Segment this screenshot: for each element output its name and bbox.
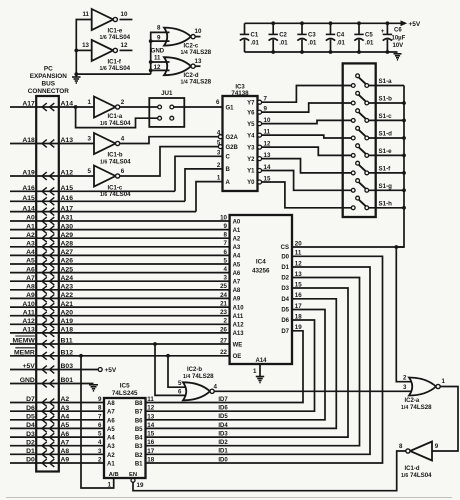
svg-text:A17: A17	[22, 101, 35, 108]
svg-text:C3: C3	[308, 33, 316, 39]
svg-text:B: B	[226, 167, 231, 173]
svg-text:A18: A18	[22, 137, 35, 144]
svg-text:MEMW: MEMW	[13, 338, 36, 345]
wire IC4 A14 pin 1 to ground	[253, 364, 260, 376]
connector row D5 / pin A4 wire	[10, 414, 104, 424]
node ID6 label	[218, 406, 228, 412]
svg-text:4: 4	[224, 266, 228, 273]
svg-text:A3: A3	[233, 245, 241, 251]
svg-text:A5: A5	[26, 258, 35, 265]
svg-text:A6: A6	[61, 431, 70, 438]
svg-text:19: 19	[137, 482, 144, 489]
capacitor C5 .01	[354, 21, 374, 54]
svg-text:D4: D4	[26, 422, 35, 429]
svg-text:S1-d: S1-d	[379, 131, 393, 138]
connector row GND / pin B01 wire	[10, 377, 94, 387]
svg-text:A15: A15	[61, 185, 74, 192]
wire IC1-e/IC1-f input tie to ground	[74, 20, 150, 77]
svg-text:ID6: ID6	[218, 406, 228, 412]
svg-text:MEMR: MEMR	[14, 350, 35, 357]
connector row A0 / pin A31 wire	[10, 215, 230, 225]
svg-text:B8: B8	[135, 401, 143, 407]
svg-text:2: 2	[224, 318, 228, 325]
svg-text:D7: D7	[281, 329, 289, 335]
svg-text:A14: A14	[61, 101, 74, 108]
svg-text:1: 1	[217, 175, 221, 182]
svg-text:A12: A12	[61, 170, 74, 177]
svg-text:9: 9	[98, 396, 102, 403]
connector row +5V / pin B03 wire	[10, 363, 98, 373]
svg-text:A1: A1	[26, 223, 35, 230]
connector row A1 / pin A30 wire	[10, 223, 230, 233]
svg-text:A4: A4	[107, 436, 115, 442]
switch S1-a	[351, 74, 404, 88]
svg-text:74138: 74138	[231, 90, 249, 97]
node ID0 label	[218, 457, 228, 463]
connector row MEMR / pin B12 wire	[10, 348, 230, 360]
svg-text:17: 17	[147, 448, 154, 455]
svg-text:A/B: A/B	[109, 472, 119, 478]
svg-text:9: 9	[435, 443, 439, 450]
wire IC2-a output to IC1-d input	[432, 387, 458, 452]
svg-text:A4: A4	[26, 249, 35, 256]
wire IC1-b output to IC3 G2A	[120, 137, 218, 144]
svg-text:5: 5	[88, 168, 92, 175]
connector row A2 / pin A29 wire	[10, 232, 230, 242]
svg-text:1/4 74LS28: 1/4 74LS28	[181, 49, 212, 56]
svg-text:26: 26	[220, 326, 227, 333]
svg-text:A13: A13	[233, 331, 245, 337]
svg-text:6: 6	[224, 249, 228, 256]
wire IC3 Y4 to switch S1-d	[262, 135, 352, 138]
PC expansion bus connector body (rectangle outline)	[36, 96, 59, 472]
svg-text:1: 1	[442, 378, 446, 385]
svg-text:GND: GND	[151, 49, 165, 55]
svg-text:A3: A3	[26, 241, 35, 248]
svg-text:C4: C4	[337, 33, 345, 39]
svg-text:B1: B1	[135, 462, 143, 468]
svg-text:D6: D6	[26, 405, 35, 412]
nor gate IC2-a	[401, 374, 446, 411]
wire IC4 D1 to IC5 (ID bus)	[146, 267, 371, 454]
wire IC1-d output to IC5 EN pin 19	[131, 451, 406, 491]
svg-text:.01: .01	[337, 41, 346, 47]
svg-text:ID3: ID3	[218, 432, 228, 438]
svg-text:6: 6	[216, 99, 220, 106]
switch S1-e	[351, 144, 404, 158]
svg-text:S1-e: S1-e	[379, 148, 393, 155]
svg-text:1: 1	[88, 99, 92, 106]
svg-text:3: 3	[403, 384, 407, 391]
svg-text:A21: A21	[61, 301, 74, 308]
svg-text:A18: A18	[61, 327, 74, 334]
svg-text:D2: D2	[281, 276, 289, 282]
svg-text:A12: A12	[22, 318, 35, 325]
svg-text:A2: A2	[61, 396, 70, 403]
svg-text:A24: A24	[61, 275, 74, 282]
connector row D6 / pin A3 wire	[10, 405, 104, 415]
svg-text:Y6: Y6	[247, 110, 255, 116]
inverter IC1-c	[88, 166, 132, 199]
svg-text:27: 27	[220, 337, 227, 344]
svg-text:D5: D5	[26, 414, 35, 421]
svg-text:1/6 74LS04: 1/6 74LS04	[401, 472, 432, 479]
svg-text:A3: A3	[107, 444, 115, 450]
svg-text:OE: OE	[233, 354, 242, 360]
ground (IC4 A14)	[256, 377, 264, 383]
svg-text:A9: A9	[61, 457, 70, 464]
wire IC3 Y6 to switch S1-b	[262, 103, 352, 112]
svg-text:D4: D4	[281, 297, 289, 303]
svg-text:CS: CS	[281, 245, 289, 251]
connector row A14 / pin A17 wire	[10, 205, 196, 215]
svg-text:11: 11	[82, 11, 89, 18]
svg-text:Y4: Y4	[247, 133, 255, 139]
ground (connector B01)	[89, 385, 98, 391]
svg-text:5: 5	[178, 380, 182, 387]
svg-text:A23: A23	[61, 284, 74, 291]
svg-text:A29: A29	[61, 232, 74, 239]
svg-text:S1-c: S1-c	[379, 113, 393, 120]
PC expansion bus connector header label	[28, 66, 69, 96]
svg-text:C: C	[226, 155, 231, 161]
svg-text:7: 7	[98, 413, 102, 420]
svg-text:74LS245: 74LS245	[112, 390, 138, 397]
connector row A12 / pin A19 wire	[10, 318, 230, 328]
svg-text:A17: A17	[61, 205, 74, 212]
svg-text:A19: A19	[61, 318, 74, 325]
inverter IC1-e	[82, 9, 132, 41]
svg-text:2: 2	[217, 162, 221, 169]
svg-text:8: 8	[399, 443, 403, 450]
inverter IC1-b	[88, 133, 132, 165]
node ID2 label	[218, 440, 228, 446]
svg-text:1/4 74LS28: 1/4 74LS28	[401, 404, 432, 411]
svg-text:GND: GND	[20, 377, 35, 384]
svg-text:A4: A4	[233, 254, 241, 260]
svg-text:D7: D7	[26, 396, 35, 403]
svg-text:Y2: Y2	[247, 157, 255, 163]
svg-text:EXPANSION: EXPANSION	[30, 73, 68, 80]
svg-text:EN: EN	[129, 472, 137, 478]
ground rail (bottom of caps)	[245, 51, 398, 53]
connector row D4 / pin A5 wire	[10, 422, 104, 432]
wire IC3 Y1 to switch S1-g	[262, 171, 352, 191]
svg-text:A7: A7	[233, 280, 241, 286]
svg-text:5: 5	[224, 257, 228, 264]
svg-text:A27: A27	[61, 249, 74, 256]
connector row D0 / pin A9 wire	[10, 457, 104, 467]
svg-text:1: 1	[108, 482, 112, 489]
svg-text:ID5: ID5	[218, 414, 228, 420]
svg-text:A5: A5	[233, 262, 241, 268]
svg-text:A14: A14	[255, 358, 267, 364]
svg-text:25: 25	[220, 283, 227, 290]
svg-text:.01: .01	[251, 41, 260, 47]
svg-text:A8: A8	[61, 448, 70, 455]
switch block S1 outline	[343, 63, 376, 217]
wire IC4 CS to switch bus	[292, 245, 404, 249]
svg-text:10V: 10V	[393, 43, 404, 49]
wire IC2-b output to IC2-a pin 3	[214, 390, 414, 392]
switch S1-f	[351, 161, 404, 175]
nor gate IC2-d	[154, 55, 212, 86]
svg-text:D5: D5	[281, 308, 289, 314]
svg-text:23: 23	[220, 309, 227, 316]
wire IC3 Y5 to switch S1-c	[262, 120, 352, 123]
svg-text:A7: A7	[107, 410, 115, 416]
wire IC4 D0 to IC5 (ID bus)	[146, 256, 383, 463]
svg-text:A19: A19	[22, 170, 35, 177]
svg-text:3: 3	[217, 149, 221, 156]
ground (IC1-e/f inputs)	[72, 74, 81, 83]
node GND label	[151, 49, 165, 55]
svg-text:2: 2	[98, 457, 102, 464]
svg-text:A8: A8	[107, 401, 115, 407]
wire JU1 to IC3 G1 pin 6	[174, 99, 223, 107]
inverter IC1-f	[82, 40, 132, 72]
svg-text:B01: B01	[61, 377, 74, 384]
svg-text:A6: A6	[26, 266, 35, 273]
svg-text:10: 10	[220, 214, 227, 221]
svg-text:A20: A20	[61, 309, 74, 316]
svg-text:13: 13	[82, 42, 89, 49]
svg-text:13: 13	[147, 413, 154, 420]
node ID7 label	[218, 397, 228, 403]
wire IC4 D2 to IC5 (ID bus)	[146, 278, 360, 446]
switch S1-d	[351, 126, 404, 140]
svg-text:A1: A1	[233, 228, 241, 234]
capacitor C2 .01	[269, 21, 289, 54]
svg-text:8: 8	[157, 25, 161, 32]
svg-text:JU1: JU1	[161, 90, 173, 97]
capacitor C1 .01	[240, 23, 260, 52]
svg-text:24: 24	[220, 292, 227, 299]
wire IC2-c/IC2-d grounded inputs	[149, 32, 170, 74]
svg-text:A13: A13	[22, 327, 35, 334]
svg-text:S1-f: S1-f	[379, 166, 392, 173]
svg-text:B6: B6	[135, 418, 143, 424]
svg-text:Y7: Y7	[247, 100, 255, 106]
svg-text:4: 4	[98, 439, 102, 446]
svg-text:A25: A25	[61, 266, 74, 273]
svg-text:C6: C6	[394, 28, 402, 34]
svg-text:4: 4	[121, 135, 125, 142]
+5V rail (top)	[245, 20, 421, 28]
svg-text:A9: A9	[233, 297, 241, 303]
svg-text:A15: A15	[22, 195, 35, 202]
svg-text:8: 8	[98, 405, 102, 412]
connector row D1 / pin A8 wire	[10, 448, 104, 458]
svg-text:Y3: Y3	[247, 145, 255, 151]
svg-text:A0: A0	[26, 215, 35, 222]
svg-text:Y0: Y0	[247, 180, 255, 186]
connector row A4 / pin A27 wire	[10, 249, 230, 259]
connector row D7 / pin A2 wire	[10, 396, 104, 406]
connector row A13 / pin A18 wire	[10, 327, 230, 337]
svg-text:.01: .01	[308, 41, 317, 47]
wire IC4 D5 to IC5 (ID bus)	[146, 310, 326, 420]
wire IC3 Y2 to switch S1-f	[262, 159, 352, 173]
inverter IC1-d	[399, 442, 432, 479]
svg-text:3: 3	[98, 448, 102, 455]
svg-text:.01: .01	[365, 41, 374, 47]
svg-text:+5V: +5V	[105, 367, 117, 374]
svg-text:A13: A13	[61, 137, 74, 144]
wire A16 row to IC3 C	[175, 156, 223, 191]
wire switch common bus to CS node	[396, 86, 406, 248]
svg-text:21: 21	[220, 301, 227, 308]
svg-text:A7: A7	[61, 439, 70, 446]
svg-text:1/4 74LS28: 1/4 74LS28	[183, 373, 214, 380]
wire A17 direct to JU1 (bypass)	[74, 105, 158, 128]
connector row A15 / pin A16 wire	[10, 195, 185, 205]
svg-text:Y5: Y5	[247, 122, 255, 128]
wire MEMW junction to IC2-b pin 6	[153, 342, 188, 395]
svg-text:B03: B03	[61, 363, 74, 370]
svg-text:C5: C5	[365, 33, 373, 39]
svg-text:7: 7	[224, 240, 228, 247]
svg-text:B11: B11	[61, 338, 73, 345]
svg-text:11: 11	[147, 396, 154, 403]
connector row A3 / pin A28 wire	[10, 241, 230, 251]
connector row A16 / pin A15 wire	[10, 185, 175, 195]
connector row D3 / pin A6 wire	[10, 431, 104, 441]
jumper JU1	[149, 90, 184, 127]
svg-text:IC4: IC4	[256, 259, 266, 266]
connector row A19 / pin A12 wire	[10, 170, 94, 180]
svg-text:A31: A31	[61, 215, 74, 222]
svg-text:D3: D3	[26, 431, 35, 438]
svg-text:1/4 74LS28: 1/4 74LS28	[181, 79, 212, 86]
svg-text:IC5: IC5	[120, 382, 130, 389]
wire IC3 Y7 to switch S1-a	[262, 86, 352, 103]
wire IC4 D6 to IC5 (ID bus)	[146, 320, 315, 411]
svg-text:S1-g: S1-g	[379, 183, 393, 190]
svg-text:B12: B12	[61, 350, 74, 357]
svg-text:D0: D0	[26, 457, 35, 464]
svg-text:A16: A16	[22, 185, 35, 192]
svg-text:A4: A4	[61, 414, 70, 421]
svg-text:A11: A11	[233, 314, 244, 320]
svg-text:A: A	[226, 180, 231, 186]
svg-text:A12: A12	[233, 323, 245, 329]
svg-text:B4: B4	[135, 436, 143, 442]
wire IC4 D3 to IC5 (ID bus)	[146, 288, 349, 437]
svg-text:D0: D0	[281, 255, 289, 261]
svg-text:9: 9	[224, 223, 228, 230]
node ID5 label	[218, 414, 228, 420]
svg-text:A0: A0	[233, 219, 241, 225]
svg-text:1/6 74LS04: 1/6 74LS04	[100, 65, 131, 72]
svg-text:G1: G1	[226, 105, 235, 111]
svg-text:S1-a: S1-a	[379, 78, 393, 85]
wire IC3 Y3 to switch S1-e	[262, 147, 352, 155]
inverter IC1-a	[88, 97, 132, 127]
nor gate IC2-c	[157, 25, 212, 57]
svg-text:12: 12	[147, 405, 154, 412]
svg-text:Y1: Y1	[247, 169, 255, 175]
svg-text:11: 11	[154, 55, 161, 62]
svg-text:B7: B7	[135, 410, 143, 416]
svg-text:8: 8	[224, 232, 228, 239]
svg-text:1: 1	[253, 368, 257, 375]
svg-text:A7: A7	[26, 275, 35, 282]
svg-text:3: 3	[88, 135, 92, 142]
svg-text:.01: .01	[279, 41, 288, 47]
node ID4 label	[218, 423, 228, 429]
SRAM IC4 43256	[220, 214, 302, 364]
connector row A10 / pin A21 wire	[10, 301, 230, 311]
connector row A18 / pin A13 wire	[10, 137, 94, 147]
wire MEMR junction to IC2-b pin 5	[166, 354, 188, 387]
svg-text:A2: A2	[26, 232, 35, 239]
switch S1-g	[351, 179, 404, 193]
svg-text:43256: 43256	[252, 268, 270, 275]
svg-text:1/6 74LS04: 1/6 74LS04	[100, 120, 131, 127]
svg-text:B3: B3	[135, 444, 143, 450]
wire A14 row to IC3 A	[196, 182, 223, 212]
connector row A8 / pin A23 wire	[10, 284, 230, 294]
bus transceiver IC5 74LS245	[98, 382, 155, 478]
svg-text:A6: A6	[233, 271, 241, 277]
svg-text:C1: C1	[251, 33, 259, 39]
connector row D2 / pin A7 wire	[10, 439, 104, 449]
scan artifact line at bottom edge	[6, 497, 452, 499]
wire IC1-a output to JU1	[120, 106, 158, 108]
connector row A17 / pin A14 wire	[10, 101, 94, 111]
svg-text:B5: B5	[135, 427, 143, 433]
svg-text:A8: A8	[233, 288, 241, 294]
svg-text:D3: D3	[281, 286, 289, 292]
svg-text:C2: C2	[279, 33, 287, 39]
connector row A9 / pin A22 wire	[10, 292, 230, 302]
svg-text:18: 18	[147, 457, 154, 464]
svg-text:A2: A2	[107, 453, 115, 459]
svg-text:A16: A16	[61, 195, 74, 202]
capacitor C3 .01	[297, 21, 317, 54]
svg-text:B2: B2	[135, 453, 143, 459]
svg-text:G2B: G2B	[226, 145, 239, 151]
svg-text:6: 6	[121, 168, 125, 175]
capacitor C6 10uF 10V (electrolytic)	[381, 21, 406, 54]
svg-text:1/6 74LS04: 1/6 74LS04	[100, 158, 131, 165]
svg-text:WE: WE	[233, 342, 243, 348]
wire IC3 Y0 to switch S1-h	[262, 182, 352, 208]
svg-text:A11: A11	[23, 309, 35, 316]
wire IC4 D7 to IC5 (ID bus)	[146, 331, 304, 403]
svg-text:ID7: ID7	[218, 397, 228, 403]
svg-text:+5V: +5V	[23, 363, 36, 370]
svg-text:BUS: BUS	[42, 81, 56, 88]
connector row A11 / pin A20 wire	[10, 309, 230, 319]
svg-text:+: +	[381, 28, 385, 35]
svg-text:PC: PC	[44, 66, 53, 73]
wire IC4 D4 to IC5 (ID bus)	[146, 299, 337, 429]
svg-text:A5: A5	[61, 422, 70, 429]
svg-text:2: 2	[121, 99, 125, 106]
wire CS node to IC2-a pin 2	[396, 247, 414, 382]
svg-text:1/6 74LS04: 1/6 74LS04	[100, 191, 131, 198]
svg-text:D6: D6	[281, 318, 289, 324]
svg-text:ID1: ID1	[218, 449, 228, 455]
svg-text:6: 6	[98, 422, 102, 429]
switch S1-b	[351, 91, 404, 105]
svg-text:1/6 74LS04: 1/6 74LS04	[100, 34, 131, 41]
svg-text:ID0: ID0	[218, 457, 228, 463]
svg-text:3: 3	[224, 275, 228, 282]
svg-text:2: 2	[403, 374, 407, 381]
